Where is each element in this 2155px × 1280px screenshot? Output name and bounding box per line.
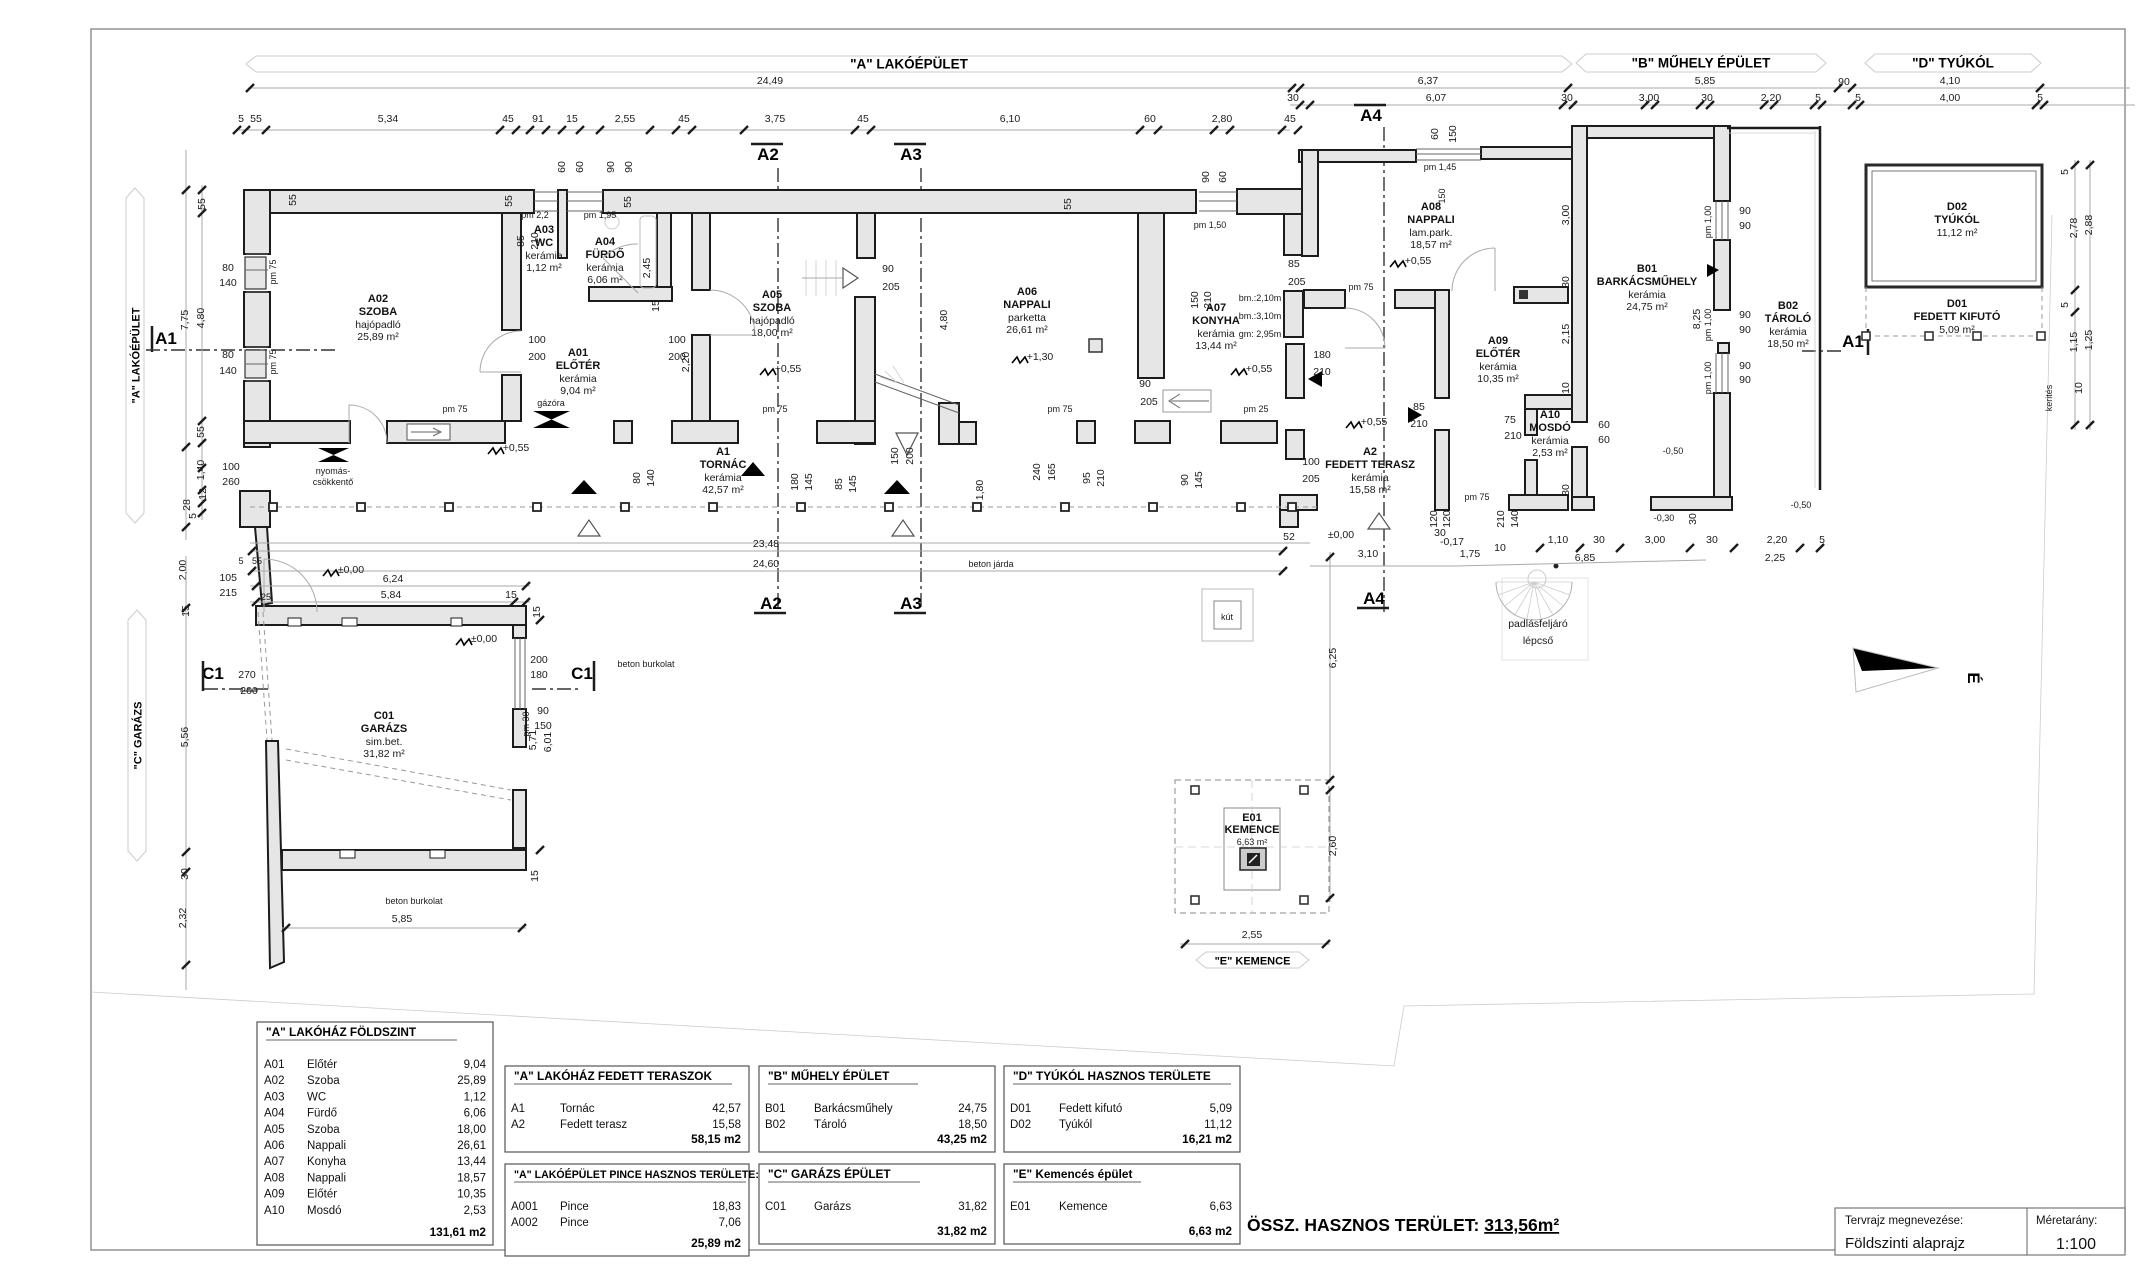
svg-text:100: 100 bbox=[668, 334, 686, 346]
svg-text:kerámia: kerámia bbox=[1769, 326, 1807, 338]
svg-text:6,06 m²: 6,06 m² bbox=[587, 274, 623, 286]
svg-text:"B" MŰHELY ÉPÜLET: "B" MŰHELY ÉPÜLET bbox=[768, 1069, 890, 1083]
svg-text:2,55: 2,55 bbox=[1242, 929, 1263, 941]
svg-text:90: 90 bbox=[623, 161, 635, 173]
svg-text:Kemence: Kemence bbox=[1059, 1201, 1108, 1213]
svg-text:5,85: 5,85 bbox=[1695, 75, 1716, 87]
svg-text:kút: kút bbox=[1221, 612, 1234, 622]
svg-text:2,60: 2,60 bbox=[1327, 836, 1339, 857]
svg-text:A04: A04 bbox=[595, 236, 616, 248]
svg-text:beton burkolat: beton burkolat bbox=[617, 659, 675, 669]
svg-text:-0,30: -0,30 bbox=[1654, 513, 1675, 523]
svg-text:MOSDÓ: MOSDÓ bbox=[1529, 421, 1571, 434]
svg-text:30: 30 bbox=[1560, 276, 1572, 288]
svg-text:150: 150 bbox=[1189, 291, 1201, 309]
svg-text:pm 75: pm 75 bbox=[762, 404, 787, 414]
svg-text:150: 150 bbox=[1437, 188, 1447, 203]
svg-text:91: 91 bbox=[532, 113, 544, 125]
svg-text:210: 210 bbox=[1504, 430, 1522, 442]
svg-text:25,89 m2: 25,89 m2 bbox=[691, 1236, 741, 1250]
svg-text:kerámia: kerámia bbox=[1197, 328, 1235, 340]
svg-text:30: 30 bbox=[1687, 513, 1699, 525]
svg-text:90: 90 bbox=[1739, 374, 1751, 386]
svg-text:E01: E01 bbox=[1242, 812, 1262, 824]
svg-text:Nappali: Nappali bbox=[307, 1172, 346, 1184]
svg-text:kerámia: kerámia bbox=[1628, 289, 1666, 301]
svg-text:210: 210 bbox=[1313, 366, 1331, 378]
svg-text:15: 15 bbox=[650, 300, 662, 312]
svg-text:"D" TYÚKÓL HASZNOS TERÜLETE: "D" TYÚKÓL HASZNOS TERÜLETE bbox=[1013, 1069, 1211, 1083]
svg-text:15,58 m²: 15,58 m² bbox=[1349, 484, 1391, 496]
svg-text:23,48: 23,48 bbox=[753, 538, 779, 550]
svg-text:13,44: 13,44 bbox=[457, 1156, 486, 1168]
svg-text:200: 200 bbox=[528, 351, 546, 363]
svg-text:Tornác: Tornác bbox=[560, 1103, 595, 1115]
svg-text:2,88: 2,88 bbox=[2083, 215, 2095, 236]
svg-text:+0,55: +0,55 bbox=[1246, 363, 1273, 375]
svg-text:Tervrajz megnevezése:: Tervrajz megnevezése: bbox=[1845, 1215, 1963, 1227]
svg-text:GARÁZS: GARÁZS bbox=[361, 722, 407, 735]
svg-text:NAPPALI: NAPPALI bbox=[1407, 214, 1454, 226]
svg-text:FEDETT TERASZ: FEDETT TERASZ bbox=[1325, 459, 1415, 471]
svg-text:"C" GARÁZS ÉPÜLET: "C" GARÁZS ÉPÜLET bbox=[768, 1167, 891, 1181]
svg-text:90: 90 bbox=[1179, 474, 1191, 486]
svg-text:150: 150 bbox=[534, 720, 552, 732]
svg-text:90: 90 bbox=[1200, 171, 1212, 183]
svg-text:10: 10 bbox=[2073, 382, 2085, 394]
svg-text:2,32: 2,32 bbox=[177, 908, 189, 929]
svg-text:18,50: 18,50 bbox=[958, 1119, 987, 1131]
svg-text:25,89 m²: 25,89 m² bbox=[357, 331, 399, 343]
svg-text:4,10: 4,10 bbox=[1940, 75, 1961, 87]
svg-text:42,57 m²: 42,57 m² bbox=[702, 484, 744, 496]
svg-text:gázóra: gázóra bbox=[537, 398, 565, 408]
svg-text:A2: A2 bbox=[757, 145, 779, 164]
svg-text:210: 210 bbox=[1202, 291, 1214, 309]
svg-text:lam.park.: lam.park. bbox=[1409, 227, 1452, 239]
svg-text:180: 180 bbox=[789, 473, 801, 491]
svg-text:6,06: 6,06 bbox=[464, 1108, 486, 1120]
svg-text:26,61: 26,61 bbox=[457, 1140, 486, 1152]
svg-text:45: 45 bbox=[502, 113, 514, 125]
svg-text:Tyúkól: Tyúkól bbox=[1059, 1119, 1092, 1131]
svg-text:"A" LAKÓÉPÜLET: "A" LAKÓÉPÜLET bbox=[850, 57, 969, 72]
svg-text:100: 100 bbox=[528, 334, 546, 346]
svg-text:SZOBA: SZOBA bbox=[753, 302, 792, 314]
svg-text:31,82 m²: 31,82 m² bbox=[363, 748, 405, 760]
svg-text:A10: A10 bbox=[264, 1205, 284, 1217]
svg-text:3,10: 3,10 bbox=[1358, 548, 1379, 560]
svg-text:75: 75 bbox=[1504, 414, 1516, 426]
svg-text:D01: D01 bbox=[1010, 1103, 1031, 1115]
svg-text:43,25 m2: 43,25 m2 bbox=[937, 1132, 987, 1146]
svg-text:85: 85 bbox=[515, 235, 527, 247]
svg-text:165: 165 bbox=[1046, 463, 1058, 481]
svg-text:15: 15 bbox=[529, 870, 541, 882]
svg-text:90: 90 bbox=[882, 263, 894, 275]
svg-text:80: 80 bbox=[631, 472, 643, 484]
svg-text:Földszinti alaprajz: Földszinti alaprajz bbox=[1845, 1235, 1965, 1252]
svg-text:6,63: 6,63 bbox=[1210, 1201, 1232, 1213]
svg-text:210: 210 bbox=[529, 232, 541, 250]
svg-text:Garázs: Garázs bbox=[814, 1201, 851, 1213]
svg-text:60: 60 bbox=[1598, 434, 1610, 446]
svg-text:145: 145 bbox=[803, 473, 815, 491]
svg-text:5: 5 bbox=[187, 513, 199, 519]
svg-text:FEDETT KIFUTÓ: FEDETT KIFUTÓ bbox=[1914, 310, 2001, 323]
svg-text:60: 60 bbox=[1217, 171, 1229, 183]
svg-text:200: 200 bbox=[530, 654, 548, 666]
svg-text:6,10: 6,10 bbox=[1000, 113, 1021, 125]
svg-text:100: 100 bbox=[222, 461, 240, 473]
svg-text:hajópadló: hajópadló bbox=[749, 315, 795, 327]
svg-text:140: 140 bbox=[219, 365, 237, 377]
svg-text:205: 205 bbox=[882, 281, 900, 293]
svg-text:150: 150 bbox=[1447, 125, 1459, 143]
svg-text:9,04 m²: 9,04 m² bbox=[560, 385, 596, 397]
svg-text:A07: A07 bbox=[264, 1156, 284, 1168]
svg-text:16,21 m2: 16,21 m2 bbox=[1182, 1132, 1232, 1146]
svg-text:95: 95 bbox=[1081, 472, 1093, 484]
svg-text:B01: B01 bbox=[765, 1103, 785, 1115]
svg-text:6,25: 6,25 bbox=[1327, 648, 1339, 669]
svg-text:A1: A1 bbox=[511, 1103, 525, 1115]
svg-text:kerámia: kerámia bbox=[1531, 435, 1569, 447]
svg-text:pm 1,50: pm 1,50 bbox=[1194, 220, 1227, 230]
svg-text:A4: A4 bbox=[1363, 589, 1385, 608]
svg-text:pm 1,00: pm 1,00 bbox=[1703, 362, 1713, 395]
svg-text:FÜRDŐ: FÜRDŐ bbox=[585, 248, 625, 261]
svg-text:6,63 m2: 6,63 m2 bbox=[1189, 1224, 1233, 1238]
svg-text:150: 150 bbox=[889, 447, 901, 465]
svg-text:55: 55 bbox=[503, 195, 515, 207]
svg-text:210: 210 bbox=[1495, 510, 1507, 528]
svg-text:215: 215 bbox=[219, 587, 237, 599]
svg-text:lépcső: lépcső bbox=[1523, 635, 1554, 647]
svg-text:NAPPALI: NAPPALI bbox=[1003, 299, 1050, 311]
svg-text:A06: A06 bbox=[264, 1140, 284, 1152]
svg-text:5,84: 5,84 bbox=[381, 589, 402, 601]
svg-text:5: 5 bbox=[2059, 302, 2071, 308]
svg-text:145: 145 bbox=[847, 475, 859, 493]
svg-text:WC: WC bbox=[307, 1091, 326, 1103]
svg-text:55: 55 bbox=[196, 198, 208, 210]
svg-text:"A" LAKÓÉPÜLET PINCE HASZNOS T: "A" LAKÓÉPÜLET PINCE HASZNOS TERÜLETE: bbox=[514, 1168, 759, 1181]
svg-text:30: 30 bbox=[1706, 534, 1718, 546]
svg-text:60: 60 bbox=[556, 161, 568, 173]
svg-text:240: 240 bbox=[1031, 463, 1043, 481]
svg-text:C01: C01 bbox=[374, 710, 394, 722]
svg-text:bm.:2,10m: bm.:2,10m bbox=[1239, 293, 1282, 303]
svg-text:"D" TYÚKÓL: "D" TYÚKÓL bbox=[1912, 56, 1994, 71]
svg-text:55: 55 bbox=[252, 556, 262, 566]
svg-text:A001: A001 bbox=[511, 1201, 538, 1213]
svg-text:25: 25 bbox=[261, 592, 271, 602]
svg-text:+0,55: +0,55 bbox=[1361, 416, 1388, 428]
svg-text:30: 30 bbox=[1560, 484, 1572, 496]
svg-text:Mosdó: Mosdó bbox=[307, 1205, 342, 1217]
svg-text:26,61 m²: 26,61 m² bbox=[1006, 324, 1048, 336]
svg-text:90: 90 bbox=[605, 161, 617, 173]
svg-text:105: 105 bbox=[219, 572, 237, 584]
svg-text:4,80: 4,80 bbox=[195, 308, 207, 329]
svg-text:2,78: 2,78 bbox=[2068, 218, 2080, 239]
svg-text:10,35: 10,35 bbox=[457, 1189, 486, 1201]
svg-text:140: 140 bbox=[219, 277, 237, 289]
svg-text:kerámia: kerámia bbox=[1479, 361, 1517, 373]
svg-text:A01: A01 bbox=[264, 1059, 284, 1071]
svg-text:90: 90 bbox=[537, 705, 549, 717]
svg-text:1,80: 1,80 bbox=[974, 480, 986, 501]
svg-text:24,75 m²: 24,75 m² bbox=[1626, 301, 1668, 313]
svg-text:31,82 m2: 31,82 m2 bbox=[937, 1224, 987, 1238]
svg-text:Szoba: Szoba bbox=[307, 1075, 340, 1087]
svg-text:A2: A2 bbox=[760, 594, 782, 613]
svg-text:A2: A2 bbox=[511, 1119, 525, 1131]
svg-text:Fürdő: Fürdő bbox=[307, 1108, 337, 1120]
svg-text:140: 140 bbox=[1509, 510, 1521, 528]
svg-text:2,80: 2,80 bbox=[1212, 113, 1233, 125]
svg-text:B02: B02 bbox=[1778, 300, 1798, 312]
svg-text:B01: B01 bbox=[1637, 263, 1657, 275]
svg-text:80: 80 bbox=[222, 349, 234, 361]
svg-text:"E" KEMENCE: "E" KEMENCE bbox=[1215, 956, 1291, 968]
svg-text:18,00 m²: 18,00 m² bbox=[751, 327, 793, 339]
svg-text:Pince: Pince bbox=[560, 1201, 589, 1213]
svg-text:A08: A08 bbox=[264, 1172, 284, 1184]
svg-text:90: 90 bbox=[1739, 205, 1751, 217]
svg-text:15: 15 bbox=[531, 606, 543, 618]
svg-text:1:100: 1:100 bbox=[2056, 1236, 2096, 1253]
svg-text:pm 75: pm 75 bbox=[1047, 404, 1072, 414]
svg-text:D01: D01 bbox=[1947, 298, 1967, 310]
svg-text:90: 90 bbox=[1739, 360, 1751, 372]
svg-text:"B" MŰHELY ÉPÜLET: "B" MŰHELY ÉPÜLET bbox=[1632, 56, 1772, 71]
svg-text:8,25: 8,25 bbox=[1691, 309, 1703, 330]
svg-text:pm 30: pm 30 bbox=[521, 711, 531, 736]
svg-text:6,63 m²: 6,63 m² bbox=[1237, 837, 1268, 847]
svg-text:6,01: 6,01 bbox=[542, 732, 554, 753]
svg-text:10: 10 bbox=[1494, 542, 1506, 554]
svg-text:kerámia: kerámia bbox=[704, 472, 742, 484]
svg-text:10: 10 bbox=[1560, 382, 1572, 394]
svg-text:10,35 m²: 10,35 m² bbox=[1477, 373, 1519, 385]
svg-text:2,20: 2,20 bbox=[1767, 534, 1788, 546]
svg-text:TÁROLÓ: TÁROLÓ bbox=[1765, 312, 1812, 325]
svg-text:"E" Kemencés épület: "E" Kemencés épület bbox=[1013, 1167, 1132, 1181]
svg-text:18,83: 18,83 bbox=[712, 1201, 741, 1213]
svg-text:5,34: 5,34 bbox=[378, 113, 399, 125]
svg-text:5,56: 5,56 bbox=[179, 727, 191, 748]
svg-text:60: 60 bbox=[1598, 419, 1610, 431]
svg-text:18,57 m²: 18,57 m² bbox=[1410, 239, 1452, 251]
svg-text:2,25: 2,25 bbox=[1765, 552, 1786, 564]
svg-text:1,10: 1,10 bbox=[1548, 534, 1569, 546]
svg-text:nyomás-: nyomás- bbox=[316, 466, 351, 476]
svg-text:3,75: 3,75 bbox=[765, 113, 786, 125]
svg-text:131,61 m2: 131,61 m2 bbox=[430, 1225, 487, 1239]
svg-text:1,15: 1,15 bbox=[2068, 332, 2080, 353]
svg-text:A1: A1 bbox=[1842, 332, 1864, 351]
svg-text:120: 120 bbox=[1428, 510, 1440, 528]
svg-text:csökkentő: csökkentő bbox=[313, 477, 354, 487]
svg-text:±0,00: ±0,00 bbox=[1328, 529, 1354, 541]
svg-text:30: 30 bbox=[1593, 534, 1605, 546]
svg-text:90: 90 bbox=[1739, 220, 1751, 232]
svg-text:1,25: 1,25 bbox=[2083, 330, 2095, 351]
svg-text:200: 200 bbox=[904, 447, 916, 465]
svg-text:1,75: 1,75 bbox=[1460, 548, 1481, 560]
svg-text:pm 75: pm 75 bbox=[268, 259, 278, 284]
svg-text:2,45: 2,45 bbox=[641, 258, 653, 279]
svg-text:KONYHA: KONYHA bbox=[1192, 315, 1240, 327]
svg-text:A2: A2 bbox=[1363, 446, 1377, 458]
svg-text:9,04: 9,04 bbox=[464, 1059, 487, 1071]
svg-text:kerités: kerités bbox=[2044, 384, 2054, 411]
svg-text:kerámia: kerámia bbox=[525, 250, 563, 262]
svg-text:45: 45 bbox=[1284, 113, 1296, 125]
svg-text:55: 55 bbox=[287, 194, 299, 206]
svg-text:5,85: 5,85 bbox=[392, 913, 413, 925]
svg-text:18,57: 18,57 bbox=[457, 1172, 486, 1184]
svg-text:90: 90 bbox=[1739, 324, 1751, 336]
svg-text:pm 75: pm 75 bbox=[1348, 282, 1373, 292]
svg-text:parketta: parketta bbox=[1008, 312, 1046, 324]
svg-text:pm 1,95: pm 1,95 bbox=[584, 210, 617, 220]
svg-text:A09: A09 bbox=[1488, 335, 1508, 347]
svg-text:A3: A3 bbox=[900, 145, 922, 164]
svg-text:TYÚKÓL: TYÚKÓL bbox=[1934, 213, 1980, 226]
svg-text:A4: A4 bbox=[1360, 106, 1382, 125]
svg-text:6,24: 6,24 bbox=[383, 573, 404, 585]
svg-text:60: 60 bbox=[1429, 128, 1441, 140]
svg-text:55: 55 bbox=[250, 113, 262, 125]
svg-text:260: 260 bbox=[222, 476, 240, 488]
svg-text:Fedett terasz: Fedett terasz bbox=[560, 1119, 627, 1131]
svg-text:55: 55 bbox=[195, 426, 207, 438]
svg-text:-0,50: -0,50 bbox=[1663, 446, 1684, 456]
svg-text:+0,55: +0,55 bbox=[503, 442, 530, 454]
svg-text:2,20: 2,20 bbox=[680, 352, 692, 373]
svg-text:"A" LAKÓÉPÜLET: "A" LAKÓÉPÜLET bbox=[130, 307, 143, 403]
svg-text:A1: A1 bbox=[716, 446, 730, 458]
svg-text:1,12 m²: 1,12 m² bbox=[526, 262, 562, 274]
svg-text:hajópadló: hajópadló bbox=[355, 319, 401, 331]
svg-text:pm 1,45: pm 1,45 bbox=[1424, 162, 1457, 172]
svg-text:24,60: 24,60 bbox=[753, 558, 779, 570]
svg-text:Előtér: Előtér bbox=[307, 1189, 337, 1201]
svg-text:85: 85 bbox=[833, 478, 845, 490]
svg-text:C01: C01 bbox=[765, 1201, 786, 1213]
svg-text:"A" LAKÓHÁZ FEDETT TERASZOK: "A" LAKÓHÁZ FEDETT TERASZOK bbox=[514, 1069, 712, 1083]
svg-text:18,50 m²: 18,50 m² bbox=[1767, 338, 1809, 350]
svg-text:E01: E01 bbox=[1010, 1201, 1030, 1213]
svg-text:ELŐTÉR: ELŐTÉR bbox=[556, 359, 601, 372]
svg-text:2,53: 2,53 bbox=[464, 1205, 486, 1217]
svg-text:5,09: 5,09 bbox=[1210, 1103, 1232, 1115]
svg-text:pm 1,00: pm 1,00 bbox=[1703, 206, 1713, 239]
svg-text:pm 75: pm 75 bbox=[1464, 492, 1489, 502]
svg-text:A01: A01 bbox=[568, 347, 588, 359]
svg-text:Nappali: Nappali bbox=[307, 1140, 346, 1152]
svg-text:"A" LAKÓHÁZ FÖLDSZINT: "A" LAKÓHÁZ FÖLDSZINT bbox=[266, 1025, 417, 1039]
svg-text:-0,50: -0,50 bbox=[1791, 500, 1812, 510]
svg-text:Pince: Pince bbox=[560, 1217, 589, 1229]
svg-text:6,37: 6,37 bbox=[1418, 75, 1439, 87]
svg-text:55: 55 bbox=[1062, 198, 1074, 210]
svg-text:padlásfeljáró: padlásfeljáró bbox=[1508, 618, 1568, 630]
svg-text:D02: D02 bbox=[1947, 201, 1967, 213]
svg-text:4,00: 4,00 bbox=[1940, 92, 1961, 104]
svg-text:kerámia: kerámia bbox=[559, 373, 597, 385]
svg-text:gm: 2,95m: gm: 2,95m bbox=[1239, 329, 1282, 339]
svg-text:+1,30: +1,30 bbox=[1027, 351, 1054, 363]
svg-text:58,15 m2: 58,15 m2 bbox=[691, 1132, 741, 1146]
svg-text:A04: A04 bbox=[264, 1108, 285, 1120]
svg-text:beton járda: beton járda bbox=[968, 559, 1013, 569]
svg-text:SZOBA: SZOBA bbox=[359, 306, 398, 318]
svg-text:60: 60 bbox=[574, 161, 586, 173]
svg-text:Fedett kifutó: Fedett kifutó bbox=[1059, 1103, 1122, 1115]
svg-text:Konyha: Konyha bbox=[307, 1156, 347, 1168]
svg-text:145: 145 bbox=[1193, 471, 1205, 489]
svg-text:ELŐTÉR: ELŐTÉR bbox=[1476, 347, 1521, 360]
svg-text:45: 45 bbox=[678, 113, 690, 125]
svg-text:7,75: 7,75 bbox=[179, 310, 191, 331]
svg-text:Szoba: Szoba bbox=[307, 1124, 340, 1136]
svg-text:205: 205 bbox=[1302, 473, 1320, 485]
svg-text:3,00: 3,00 bbox=[1645, 534, 1666, 546]
svg-text:45: 45 bbox=[857, 113, 869, 125]
svg-text:A10: A10 bbox=[1540, 409, 1560, 421]
svg-text:D02: D02 bbox=[1010, 1119, 1031, 1131]
svg-text:120: 120 bbox=[1441, 510, 1453, 528]
svg-text:±0,00: ±0,00 bbox=[471, 633, 497, 645]
svg-text:beton burkolat: beton burkolat bbox=[385, 896, 443, 906]
svg-text:±0,00: ±0,00 bbox=[338, 564, 364, 576]
svg-text:80: 80 bbox=[222, 262, 234, 274]
svg-text:7,06: 7,06 bbox=[719, 1217, 741, 1229]
svg-text:+0,55: +0,55 bbox=[1405, 255, 1432, 267]
svg-text:140: 140 bbox=[645, 469, 657, 487]
svg-text:A02: A02 bbox=[368, 293, 388, 305]
svg-text:kerámia: kerámia bbox=[586, 262, 624, 274]
svg-text:11,12 m²: 11,12 m² bbox=[1937, 227, 1978, 239]
svg-text:pm 25: pm 25 bbox=[1243, 404, 1268, 414]
svg-text:A02: A02 bbox=[264, 1075, 284, 1087]
svg-text:210: 210 bbox=[1095, 469, 1107, 487]
svg-text:5: 5 bbox=[238, 556, 243, 566]
svg-text:ÖSSZ. HASZNOS TERÜLET: 313,56m: ÖSSZ. HASZNOS TERÜLET: 313,56m² bbox=[1247, 1215, 1559, 1235]
svg-text:C1: C1 bbox=[202, 664, 224, 683]
svg-text:52: 52 bbox=[1283, 531, 1295, 543]
svg-text:A1: A1 bbox=[155, 329, 177, 348]
svg-text:A06: A06 bbox=[1017, 286, 1037, 298]
svg-text:3,00: 3,00 bbox=[1560, 205, 1572, 226]
svg-text:18,00: 18,00 bbox=[457, 1124, 486, 1136]
svg-text:25,89: 25,89 bbox=[457, 1075, 486, 1087]
svg-text:Előtér: Előtér bbox=[307, 1059, 337, 1071]
svg-text:24,75: 24,75 bbox=[958, 1103, 987, 1115]
svg-text:15: 15 bbox=[566, 113, 578, 125]
svg-text:60: 60 bbox=[1144, 113, 1156, 125]
svg-text:2,15: 2,15 bbox=[1560, 324, 1572, 345]
svg-text:É: É bbox=[1964, 672, 1983, 683]
svg-text:4,80: 4,80 bbox=[938, 310, 950, 331]
svg-text:2,00: 2,00 bbox=[177, 560, 189, 581]
svg-text:42,57: 42,57 bbox=[712, 1103, 741, 1115]
svg-text:sim.bet.: sim.bet. bbox=[366, 736, 403, 748]
